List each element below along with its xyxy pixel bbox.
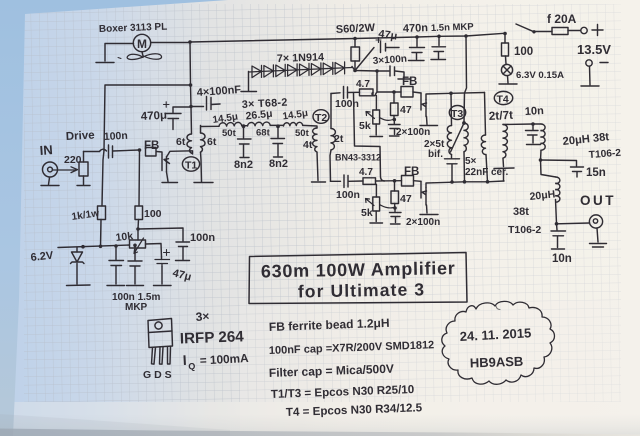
resistor 100 (lamp series) [502,34,509,65]
capacitor 4x100nF (series) [191,97,220,111]
capacitor 47u (electrolytic, bypass) [355,38,399,71]
resistor 100 (bias) [135,150,143,231]
wire top supply rail [190,33,506,42]
wire upper drain line [449,92,484,96]
wire bias L-link upper-to-lower [354,93,385,181]
capacitor 10n (at T4) [526,124,541,145]
capacitor 5x 22nF cer [445,155,460,182]
svg-text:47: 47 [400,104,412,116]
wire to FB lower [376,179,402,183]
wire with pigtail junction [372,92,401,96]
transistor Q3 (lower PA MOSFET) [420,181,438,214]
capacitor 8n2 (second) [271,126,285,157]
svg-text:T106-2: T106-2 [508,224,541,236]
fuse f 20A [552,28,580,35]
svg-text:3×: 3× [195,309,210,324]
capacitor 100n (zener bus) [107,246,125,286]
TO-247 package drawing IRFP 264 [148,319,173,365]
bottom dark shadow band [0,414,640,436]
svg-text:T106-2: T106-2 [588,148,621,161]
svg-text:5×: 5× [465,156,477,167]
svg-text:2×100n: 2×100n [396,127,430,138]
capacitor 2x100n (upper) [389,120,401,137]
svg-text:cer.: cer. [491,167,508,178]
svg-text:8n2: 8n2 [269,158,288,170]
zener diode 6.2V [67,248,91,286]
label circle T1 [182,157,199,171]
wire zener bus [58,244,137,249]
svg-text:2t: 2t [334,133,344,145]
INK LAYER [41,24,608,384]
svg-text:100n: 100n [335,98,359,110]
transistor Q2 (upper PA MOSFET) [420,93,451,126]
wire to Q3 gate [414,180,422,183]
cloud inner detail [496,306,500,310]
wire to drive bias dropper [104,85,191,151]
capacitor 100n (upper gate) [344,87,348,99]
inductor 20uH 38t (upper output) [539,124,546,162]
inductor L3 14.5u 50t [284,122,303,126]
wire T4 output line [503,122,541,126]
svg-text:38t: 38t [513,206,529,218]
transformer T1 windings 6t:6t [187,126,205,154]
svg-text:G D S: G D S [143,369,172,381]
svg-text:5k: 5k [361,207,373,219]
svg-text:for Ultimate 3: for Ultimate 3 [298,279,426,301]
svg-text:f 20A: f 20A [547,12,577,26]
wire [349,180,364,182]
node filter j2 [270,124,283,128]
inductor L2 26.5u 68t [248,122,271,126]
svg-text:4.7: 4.7 [356,79,370,90]
label circle T4 [494,91,512,104]
node T3 bifilar [462,121,466,125]
svg-text:100: 100 [144,208,162,220]
svg-text:15n: 15n [586,167,606,179]
wire to Q2 gate [413,92,421,93]
wire filter to T2 [303,125,317,128]
svg-text:10n: 10n [525,105,545,118]
lamp 6.3V 0.15A [499,64,517,84]
svg-text:T1: T1 [185,160,197,172]
input BNC jack IN [41,162,59,186]
capacitor 2x100n (lower) [390,208,402,224]
node filter j1 [242,124,248,128]
wire lower gate line [331,180,341,182]
box title [249,253,467,304]
svg-text:T3: T3 [451,108,463,120]
wire upper gate line [331,92,340,95]
ferrite bead FB (upper) [401,87,413,98]
label circle T3 [449,106,465,120]
svg-text:T4: T4 [497,94,509,106]
capacitor 47u (zener bus electrolytic) [154,250,172,286]
ferrite bead FB (lower) [402,176,414,187]
svg-text:bif.: bif. [428,149,443,160]
transformer T4 primary 2t [481,93,487,182]
svg-text:4.7: 4.7 [359,167,373,178]
svg-text:22nF: 22nF [465,167,488,178]
svg-text:8n2: 8n2 [234,159,253,171]
capacitor 10n (output) [551,224,566,249]
capacitor 15n [541,160,584,177]
svg-text:50t: 50t [222,128,237,139]
svg-text:S60/2W: S60/2W [336,22,376,36]
svg-text:7× 1N914: 7× 1N914 [277,51,325,65]
ferrite bead FB (gate T1) [146,148,157,157]
capacitor 470n [409,37,425,61]
svg-text:Drive: Drive [66,130,95,143]
svg-text:OUT: OUT [580,193,616,208]
cloud (date stamp) [442,301,555,384]
node upper gate j [392,90,396,94]
svg-text:2t/7t: 2t/7t [488,108,513,123]
capacitor 100n (series, drive) [109,145,142,158]
wire T1 secondary to filter [201,152,202,182]
svg-text:470n: 470n [403,22,429,35]
wire drive line with hop [84,149,107,151]
svg-text:FB: FB [402,76,417,88]
capacitor 470u (electrolytic) [164,102,192,130]
svg-text:100n: 100n [190,232,215,244]
label circle T2 [313,110,329,124]
wire bottom rail [433,180,504,184]
wire T3 right winding to bottom rail [463,152,466,181]
capacitor 8n2 (first) [238,126,252,157]
svg-text:13.5V: 13.5V [577,42,611,57]
bottom margin of paper below grid [0,402,640,436]
transformer T3 primary (2x5t bifilar) [447,93,468,154]
wire fan/drain feed vertical [189,42,193,134]
capacitor 100n (bias filter) [138,228,190,261]
svg-text:2×100n: 2×100n [406,217,440,228]
transformer T2 secondary 2t [330,94,335,182]
ground T1 secondary [194,182,213,184]
capacitor 3x100n (series, bias line) [390,66,411,79]
trimmer 10k [130,229,162,257]
transistor Q1 (T1 MOSFET) [157,151,193,183]
transformer T4 secondary 7t [494,125,514,182]
svg-text:= 100mA: = 100mA [199,351,249,368]
transformer T2 primary 4t [312,128,326,182]
capacitor 100n (lower gate) [344,175,348,188]
wire filter input [201,125,219,127]
svg-text:4t: 4t [303,139,313,151]
svg-text:IN: IN [39,142,53,158]
svg-text:630m 100W Amplifier: 630m 100W Amplifier [261,258,456,281]
svg-text:50t: 50t [295,128,310,139]
wire T3 feed from rail [464,36,467,123]
resistor 1k/1W [98,151,106,247]
terminal minus [581,60,608,86]
svg-text:FB: FB [404,166,419,178]
svg-text:MKP: MKP [125,302,148,313]
svg-text:47: 47 [400,193,412,205]
resistor 220 input termination [53,152,91,186]
svg-text:T2: T2 [315,112,327,124]
output BNC jack OUT [557,215,607,247]
svg-text:1.5n MKP: 1.5n MKP [431,21,475,34]
wire gate-bias line [352,67,389,73]
svg-text:100n: 100n [104,130,129,143]
svg-text:6t: 6t [176,136,186,148]
resistor S60/2W [351,39,360,73]
svg-text:Q: Q [188,361,196,371]
inductor 20uH 38t (lower output) [541,160,560,226]
switch S1 [516,24,552,34]
svg-text:IRFP 264: IRFP 264 [180,328,245,347]
diode chain 7x 1N914 [241,62,352,92]
wire bias feed to upper gate [376,71,378,92]
inductor L1 14.5u 50t [219,122,242,126]
svg-text:6t: 6t [207,136,217,148]
svg-text:6.3V 0.15A: 6.3V 0.15A [516,70,564,81]
terminal + 13.5V [581,25,603,36]
resistor 4.7 (lower gate) [363,178,376,185]
trimmer 5k (upper) [366,96,393,137]
svg-text:FB: FB [144,140,159,152]
capacitor 1.5m (zener bus) [127,245,144,285]
svg-text:10k: 10k [115,230,134,244]
resistor 4.7 (upper gate) [360,89,374,96]
svg-text:HB9ASB: HB9ASB [470,354,524,371]
trimmer 5k (lower) [366,184,395,223]
svg-text:100: 100 [514,46,533,58]
node rail junctions [188,32,507,44]
wire [348,91,360,93]
svg-text:BN43-3312: BN43-3312 [335,153,381,163]
svg-text:68t: 68t [256,128,271,139]
svg-text:100n: 100n [336,189,360,201]
svg-text:10n: 10n [552,253,572,265]
resistor 47 (lower) [391,181,399,210]
resistor 47 (upper) [391,92,399,121]
svg-text:6.2V: 6.2V [30,250,54,264]
capacitor 1.5n MKP [431,36,446,59]
svg-text:470μ: 470μ [141,110,168,123]
fan motor M (Boxer 3113 PL) [96,34,190,62]
svg-text:5k: 5k [359,120,371,132]
svg-text:220: 220 [64,154,82,166]
svg-text:M: M [137,37,147,51]
